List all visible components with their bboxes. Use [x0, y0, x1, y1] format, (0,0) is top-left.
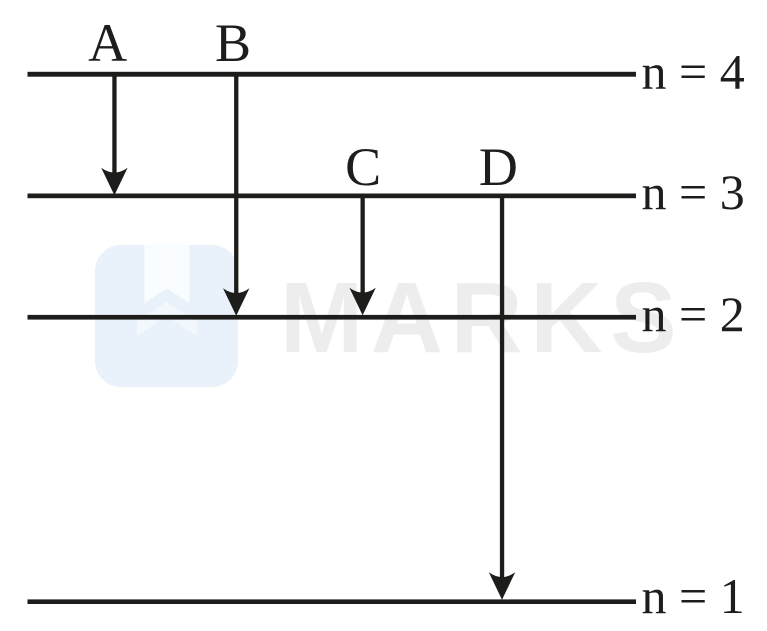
level line n=2 [28, 315, 637, 320]
svg-text:n = 1: n = 1 [642, 568, 745, 624]
svg-text:C: C [345, 137, 381, 197]
svg-text:n = 3: n = 3 [642, 164, 745, 220]
transition arrow D: head [489, 572, 515, 600]
svg-text:n = 2: n = 2 [642, 286, 745, 342]
level line n=4 [28, 72, 637, 77]
svg-text:A: A [88, 13, 127, 73]
transition arrow B (n=4 to n=2): shaft [234, 73, 238, 302]
transition arrow C (n=3 to n=2): shaft [361, 195, 365, 302]
svg-text:D: D [479, 137, 518, 197]
transition arrow D (n=3 to n=1): shaft [500, 195, 504, 586]
watermark logo rounded square [95, 245, 238, 387]
transition arrow A (n=4 to n=3): shaft [112, 73, 116, 181]
svg-text:n = 4: n = 4 [642, 44, 745, 100]
level line n=1 [28, 599, 637, 604]
svg-text:B: B [215, 13, 251, 73]
level line n=3 [28, 194, 637, 199]
transition arrow C: head [349, 288, 375, 316]
transition arrow B: head [223, 288, 249, 316]
transition arrow A: head [101, 168, 127, 196]
